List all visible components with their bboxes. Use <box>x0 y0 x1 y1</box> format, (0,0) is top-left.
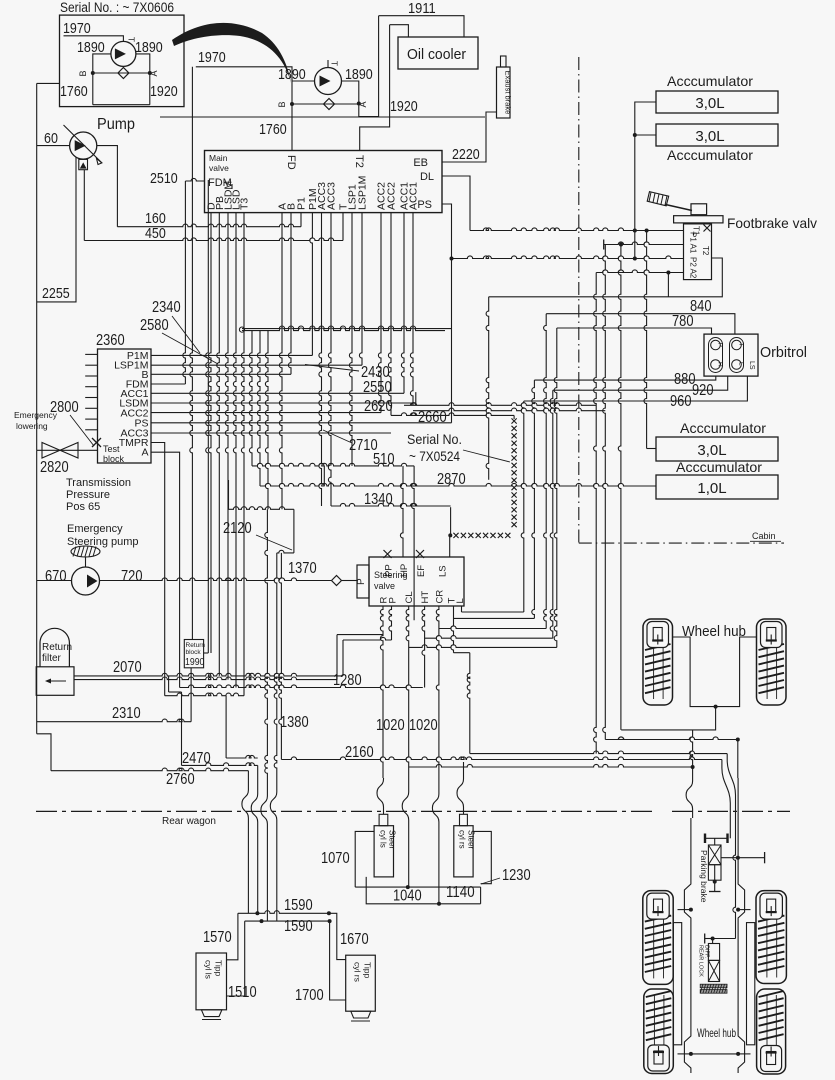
svg-text:P: P <box>356 578 367 585</box>
left rail <box>36 83 38 450</box>
test block left tick 2 <box>85 364 97 366</box>
wire serial box to left rail <box>37 82 60 84</box>
node hub 739 <box>736 738 740 742</box>
svg-text:ACC1: ACC1 <box>408 182 420 210</box>
svg-text:1370: 1370 <box>288 560 317 577</box>
wire 1700 drop <box>330 921 346 1000</box>
test block left tick 7 <box>85 418 97 420</box>
wire return block right port <box>204 652 209 654</box>
node T1-b <box>645 229 649 233</box>
node bogie right mid <box>736 908 740 912</box>
wire 2470 line <box>181 692 183 765</box>
wire hub drop 727 <box>726 754 728 760</box>
node 1040 A <box>406 885 410 889</box>
wire EB to exhaust brake <box>442 112 497 162</box>
wire rail bottom hook <box>37 734 51 771</box>
wire 1230 bracket <box>473 831 491 883</box>
wire FDM column <box>183 181 186 384</box>
wire bogie bottom <box>691 1053 738 1055</box>
parking brake valve lower <box>708 865 721 881</box>
svg-text:Tipp: Tipp <box>363 962 373 978</box>
svg-text:Exaust brake: Exaust brake <box>504 71 513 115</box>
wire T stub <box>342 213 344 241</box>
wire steering L right <box>461 606 463 612</box>
wire ACC1b column <box>410 213 413 406</box>
wire 780 line <box>557 328 712 334</box>
wire orbitrol riser 960 <box>521 401 524 612</box>
accumulator box 3,0L #2 <box>656 124 778 146</box>
svg-text:1590: 1590 <box>284 897 313 914</box>
wire right step <box>480 887 482 904</box>
wire v226 down <box>225 696 227 758</box>
tipp cyl rs body <box>346 955 376 1011</box>
svg-text:T3: T3 <box>239 198 251 210</box>
svg-text:block: block <box>186 649 202 656</box>
node A (pump P2) <box>357 102 361 106</box>
node bogie bottom left <box>689 1052 693 1056</box>
pump P1 variable arrow <box>64 125 102 163</box>
wire FDM row <box>151 383 185 385</box>
svg-text:valve: valve <box>209 163 229 173</box>
front wheel hub right tire <box>757 619 787 705</box>
check valve diamond (serial box) <box>118 68 129 79</box>
wire steering T right <box>451 606 454 653</box>
check valve diamond (pump P2) <box>324 99 335 110</box>
wire TMPR row <box>151 443 165 696</box>
svg-text:DL: DL <box>420 171 434 183</box>
tipp cyl ls body <box>196 953 227 1010</box>
orbitrol left slot <box>709 338 723 373</box>
svg-text:Wheel hub: Wheel hub <box>682 624 746 640</box>
wire pb plug right <box>738 857 765 859</box>
wire A to oil cooler left <box>359 16 379 117</box>
wire return block bottom to 2310 <box>190 668 192 722</box>
svg-text:2310: 2310 <box>112 705 141 722</box>
svg-text:Pos 65: Pos 65 <box>66 501 100 513</box>
svg-text:2120: 2120 <box>223 520 252 537</box>
wire 1570 drop <box>227 913 238 960</box>
svg-text:A: A <box>149 70 159 76</box>
wire footbrake T2 line <box>452 256 684 259</box>
emergency steering pump symbol <box>72 567 100 595</box>
wire orbitrol riser 840 <box>544 314 547 629</box>
wire v730 to parking brake <box>729 818 731 838</box>
diff lock valve <box>708 960 719 981</box>
svg-text:2660: 2660 <box>418 409 447 426</box>
wire 1590 line A <box>238 911 329 914</box>
wire B-A with check valve (serial box) <box>93 72 150 74</box>
wire 160 line <box>117 224 301 227</box>
wire 920 line <box>553 376 728 390</box>
wire 1510 drop <box>227 921 245 996</box>
svg-text:R: R <box>717 362 724 367</box>
bogie tire top-left <box>643 891 673 985</box>
steer cyl ls body <box>374 826 393 877</box>
wire 695 line <box>165 693 244 696</box>
wire hub drop 722 <box>721 760 723 769</box>
wire steering CL down <box>406 606 409 790</box>
svg-text:60: 60 <box>44 130 58 147</box>
svg-text:P: P <box>717 343 724 347</box>
wire v605 down <box>603 245 606 740</box>
wire hub drop 692 <box>690 730 693 767</box>
wire 1590 line B <box>245 920 330 922</box>
orbitrol circle T <box>732 340 742 350</box>
bogie tire bottom-right <box>757 989 786 1074</box>
svg-text:1990: 1990 <box>185 656 205 668</box>
svg-text:Cabin: Cabin <box>752 531 776 541</box>
svg-text:B: B <box>277 101 287 107</box>
pump P1 symbol <box>70 132 97 159</box>
wire hub line 767 <box>409 764 693 767</box>
wire tipp line 1 <box>247 771 249 788</box>
svg-text:block: block <box>103 454 125 464</box>
svg-text:Tipp: Tipp <box>214 960 224 976</box>
wire steer rs stem feed <box>463 762 465 778</box>
test block left tick 6 <box>85 407 97 409</box>
return filter arrow <box>48 680 66 682</box>
svg-text:Footbrake valv: Footbrake valv <box>727 215 817 231</box>
wire 2760 line <box>51 768 248 771</box>
wire pump P2 B side <box>292 80 315 82</box>
bogie right rail inner <box>747 923 755 1045</box>
parking brake drain <box>714 880 716 891</box>
wire accumulator leads <box>635 102 656 259</box>
svg-text:P: P <box>388 597 399 603</box>
steering valve box <box>369 557 464 606</box>
svg-text:Rear wagon: Rear wagon <box>162 816 216 827</box>
wire emergency lowering <box>37 449 98 451</box>
wire bottom link (serial box) <box>93 104 150 106</box>
main valve box U2 <box>205 151 443 213</box>
svg-text:Pressure: Pressure <box>66 489 110 501</box>
svg-text:T2: T2 <box>353 155 365 168</box>
wire footbrake T1 line <box>470 228 684 231</box>
rear wagon dashed line <box>36 810 655 812</box>
wire 758 link <box>226 755 258 758</box>
orbitrol box <box>704 334 758 376</box>
wire 880 line <box>534 376 715 380</box>
wire 2120 column <box>293 509 295 553</box>
svg-text:~ 7X0524: ~ 7X0524 <box>409 448 460 464</box>
wire LSDM column <box>225 213 228 680</box>
svg-text:Acccumulator: Acccumulator <box>667 73 753 89</box>
svg-text:1760: 1760 <box>259 121 287 138</box>
svg-text:HP: HP <box>399 564 410 577</box>
wire footbrake P1A1 line <box>604 242 684 245</box>
wire 1070 bracket <box>355 831 374 887</box>
wire 1970 underline/run <box>196 67 292 104</box>
wire tipp line 3 <box>265 509 268 794</box>
wire steering R down to stem <box>380 606 383 778</box>
node front hub branch <box>714 705 718 709</box>
serial box frame Serial No. ~7X0606 <box>60 15 185 107</box>
diff lock box <box>708 944 719 961</box>
svg-text:Orbitrol: Orbitrol <box>760 344 807 361</box>
svg-text:2580: 2580 <box>140 317 169 334</box>
node P1A1 <box>619 243 623 247</box>
svg-text:Main: Main <box>209 153 228 163</box>
svg-text:1020: 1020 <box>409 717 438 734</box>
wire v735 down to diff <box>733 818 736 939</box>
svg-text:2340: 2340 <box>152 299 181 316</box>
test block left tick 4 <box>85 386 97 388</box>
svg-text:1020: 1020 <box>376 717 405 734</box>
svg-text:LS: LS <box>748 361 755 370</box>
wire acc line a <box>404 403 596 406</box>
pump P2 symbol <box>315 68 342 95</box>
emergency lowering valve <box>42 443 60 459</box>
node pb supply <box>736 856 740 860</box>
wire case to 450 line <box>83 170 85 241</box>
node hub 767 <box>691 765 695 769</box>
node bogie left mid <box>689 908 693 912</box>
wire hub line 753 <box>470 751 727 754</box>
wire steering CR down <box>436 606 439 792</box>
wire 1670 drop <box>329 913 346 959</box>
svg-text:1670: 1670 <box>340 931 369 948</box>
node B (pump P2) <box>290 102 294 106</box>
wire bogie right stub <box>738 909 750 911</box>
return block box <box>184 640 203 668</box>
wire 1040 line A <box>355 886 480 888</box>
steer cyl rs stem <box>460 814 468 825</box>
wire 720 to steering P <box>342 580 357 582</box>
svg-text:T: T <box>738 343 745 347</box>
wire bogie left stub <box>678 909 691 911</box>
wire hub drop 737 <box>737 740 739 779</box>
svg-text:2550: 2550 <box>363 379 392 396</box>
svg-text:A: A <box>141 447 148 459</box>
svg-text:Emergency: Emergency <box>67 523 123 535</box>
oil cooler box <box>398 37 478 69</box>
bogie left rail inner <box>673 923 681 1045</box>
wire DL to footbrake T1 line <box>442 176 470 231</box>
svg-text:FD: FD <box>285 155 297 170</box>
wire LSP1M row (2430) <box>151 364 362 366</box>
svg-text:P2 A2: P2 A2 <box>689 257 698 279</box>
wire P1M row <box>151 354 312 356</box>
wire B column to B row <box>288 213 291 375</box>
wire LSDM riser <box>415 392 417 403</box>
wire ACC3b column <box>328 213 331 506</box>
svg-text:cyl rs: cyl rs <box>458 830 467 849</box>
parking brake valve upper <box>708 845 721 865</box>
wire 720 line <box>100 578 332 581</box>
wire bogie right stub low <box>738 1053 750 1055</box>
svg-text:1920: 1920 <box>150 83 178 100</box>
wire 1340b left riser <box>228 480 230 509</box>
wire tipp line 2 <box>257 765 259 792</box>
footbrake top bar <box>674 216 723 223</box>
svg-text:1040: 1040 <box>393 888 422 905</box>
node bogie bottom right <box>736 1052 740 1056</box>
svg-text:1970: 1970 <box>63 20 91 37</box>
svg-text:A: A <box>358 101 368 107</box>
wire orbitrol riser 920 <box>550 390 553 638</box>
wire LSP1M column <box>359 213 362 366</box>
wire 510 line <box>252 463 414 466</box>
orbitrol circle L <box>732 360 742 370</box>
wire v668 drop <box>667 273 669 297</box>
wire ACC2 row (2620) <box>151 412 381 414</box>
wire LSP1 column <box>349 213 352 466</box>
x-marked hose vertical <box>513 415 515 419</box>
parking brake stem <box>714 838 716 845</box>
wire mid column c <box>265 331 268 510</box>
node accumulator branch <box>633 133 637 137</box>
svg-text:2360: 2360 <box>96 332 125 349</box>
svg-text:LOCK: LOCK <box>698 962 704 977</box>
test block left tick 8 <box>85 429 97 431</box>
svg-text:1570: 1570 <box>203 929 232 946</box>
node x-line tee <box>448 533 452 537</box>
svg-text:P1 A1: P1 A1 <box>689 232 698 254</box>
svg-text:LS: LS <box>438 565 449 577</box>
svg-text:2255: 2255 <box>42 285 70 302</box>
svg-text:Pump: Pump <box>97 116 135 133</box>
wire footbrake return leg <box>489 258 723 297</box>
node A (serial box) <box>148 71 152 75</box>
steer cyl ls stem <box>379 814 388 825</box>
test block left tick 3 <box>85 375 97 377</box>
svg-text:Acccumulator: Acccumulator <box>676 459 762 475</box>
svg-text:2510: 2510 <box>150 170 178 187</box>
bogie frame right vertical <box>738 818 745 1073</box>
svg-text:DIFF.: DIFF. <box>704 945 710 959</box>
pump case drain box <box>79 159 88 169</box>
footbrake body <box>684 224 712 280</box>
svg-text:Acccumulator: Acccumulator <box>667 147 753 163</box>
svg-text:REAR: REAR <box>698 945 704 960</box>
svg-text:3,0L: 3,0L <box>695 128 724 145</box>
plug T end <box>603 240 605 250</box>
svg-text:PP: PP <box>384 564 395 577</box>
svg-text:lowering: lowering <box>16 421 48 431</box>
wire 960 line <box>524 376 748 401</box>
svg-text:ACC2: ACC2 <box>386 182 398 210</box>
node T2-a <box>633 257 637 261</box>
wire hub line 739 <box>605 737 738 740</box>
wire D column <box>208 213 211 653</box>
wire ACC3 row (2710) <box>151 432 391 434</box>
svg-text:Parking brake: Parking brake <box>699 850 709 903</box>
steering valve P box <box>357 565 369 598</box>
wire ACC1 row (2550) <box>151 392 404 394</box>
wire diff plug left <box>705 938 713 940</box>
svg-text:Wheel hub: Wheel hub <box>697 1026 736 1040</box>
wire P1 stub <box>300 213 302 227</box>
wire 1340 line <box>331 503 451 506</box>
wire orbitrol riser 880 <box>532 380 535 618</box>
wire 1370 jog <box>277 550 294 553</box>
cabin dashed vertical <box>578 57 580 543</box>
svg-text:PS: PS <box>417 199 432 211</box>
svg-text:670: 670 <box>45 568 67 585</box>
exhaust brake stem <box>501 56 507 67</box>
wire 1280 line <box>180 685 423 688</box>
wire case drain 2255 <box>37 157 76 302</box>
svg-text:1920: 1920 <box>390 98 418 115</box>
svg-text:2160: 2160 <box>345 744 374 761</box>
wire footbrake return drop <box>486 297 489 480</box>
wire 1340b line <box>229 507 294 510</box>
svg-text:Steer: Steer <box>467 830 476 849</box>
svg-text:CR: CR <box>435 590 446 604</box>
orbitrol right slot <box>730 338 744 373</box>
svg-text:ACC3: ACC3 <box>326 182 338 210</box>
wire 2070 upper <box>74 673 343 676</box>
svg-text:Test: Test <box>103 444 120 454</box>
wire 2070 lower <box>74 677 337 680</box>
wire B-A with check valve (pump P2) <box>292 103 359 105</box>
wire 450 line <box>84 238 343 241</box>
svg-text:L: L <box>738 362 745 366</box>
svg-text:1140: 1140 <box>446 884 475 901</box>
wire 510-2870 link <box>323 466 325 486</box>
wire B down to FD <box>291 104 293 151</box>
node 1590 B1 <box>260 919 264 923</box>
emergency steering pump coil <box>71 546 100 557</box>
svg-text:2070: 2070 <box>113 659 142 676</box>
footbrake plunger <box>691 204 707 215</box>
svg-text:LSP1M: LSP1M <box>357 176 369 210</box>
parking brake spring top <box>705 837 728 839</box>
svg-text:450: 450 <box>145 225 166 242</box>
wire ACC1a column <box>401 213 404 394</box>
svg-text:Serial No.: Serial No. <box>407 431 462 447</box>
svg-text:filter: filter <box>42 653 62 664</box>
wire line B <box>366 877 480 904</box>
wire v621 down <box>618 245 621 730</box>
wire 1340 right drop <box>450 507 452 535</box>
port T tick (pump P2) <box>327 60 329 67</box>
wire tipp line 4 lower <box>276 826 278 921</box>
wire double test line upper <box>242 326 452 329</box>
wire 2310 line <box>37 719 191 722</box>
wire T3 column <box>241 213 244 696</box>
wire steering CL branch <box>409 645 557 648</box>
front wheel hub left tire <box>643 619 673 705</box>
wire steering CR branch <box>439 626 546 629</box>
svg-text:1700: 1700 <box>295 987 324 1004</box>
svg-text:CL: CL <box>404 591 415 603</box>
wire 2160 line <box>281 757 722 760</box>
svg-text:valve: valve <box>374 581 395 591</box>
wire R branch 634 <box>337 634 383 636</box>
wire mid column b <box>257 331 260 486</box>
test point circle <box>239 327 244 332</box>
svg-text:Serial No. : ~ 7X0606: Serial No. : ~ 7X0606 <box>60 0 174 15</box>
wire FDM from main valve <box>185 178 204 181</box>
wire rail to pump P1 <box>37 145 70 147</box>
svg-text:Return: Return <box>42 642 72 653</box>
wire A column <box>279 213 282 510</box>
wire 1370 S crossing <box>270 790 277 826</box>
orbitrol circle P <box>711 340 721 350</box>
svg-text:2470: 2470 <box>182 750 211 767</box>
svg-text:3,0L: 3,0L <box>695 95 724 112</box>
exhaust brake body <box>497 67 511 118</box>
svg-text:Steer: Steer <box>388 830 397 849</box>
node 1590 B2 <box>328 919 332 923</box>
wire orbitrol riser 780 <box>554 328 557 647</box>
wire parking brake supply <box>721 857 738 859</box>
footbrake pedal <box>647 192 669 206</box>
svg-text:cyl ls: cyl ls <box>204 960 214 979</box>
test block left tick 5 <box>85 397 97 399</box>
svg-text:HT: HT <box>420 591 431 604</box>
